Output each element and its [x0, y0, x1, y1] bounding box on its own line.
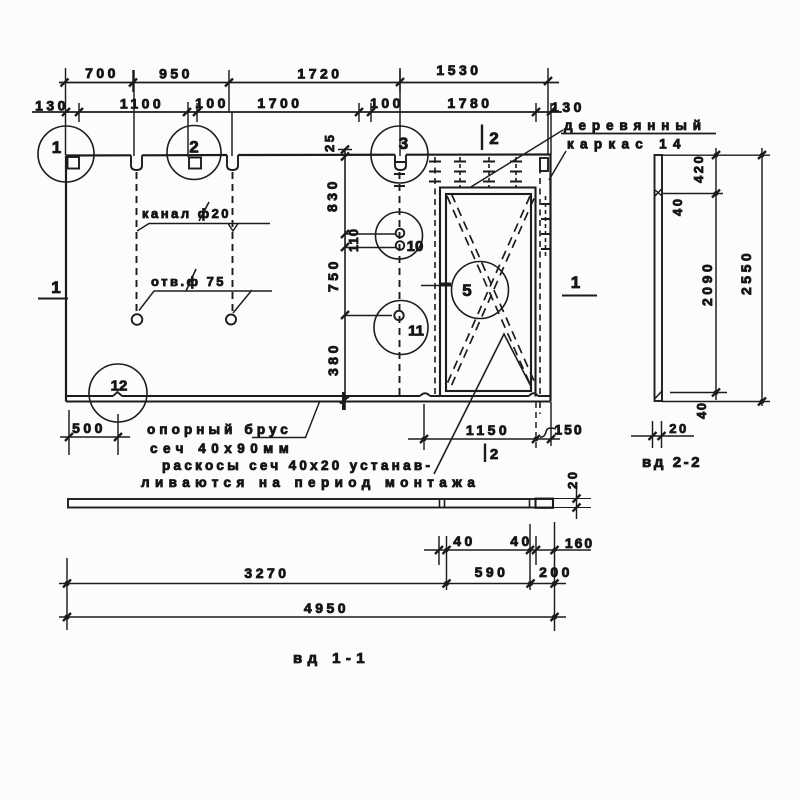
- svg-text:3270: 3270: [244, 565, 289, 581]
- extension line x=187: [187, 102, 189, 157]
- otv leader: [139, 290, 272, 313]
- svg-text:раскосы сеч 40х20 устанав-: раскосы сеч 40х20 устанав-: [162, 458, 433, 473]
- svg-text:2: 2: [490, 446, 498, 463]
- section element 2-2: [655, 148, 771, 406]
- door frame dashed companion right x=540: [539, 157, 541, 414]
- door frame inner: [446, 194, 531, 391]
- svg-text:20: 20: [565, 470, 580, 489]
- side bar (view 1-1): [68, 488, 591, 519]
- circle5 left bold tick: [439, 283, 451, 287]
- row2 tick verticals: [79, 103, 536, 122]
- small hole in c11: [394, 311, 403, 320]
- svg-text:830: 830: [324, 178, 340, 212]
- bottom dims row B: [59, 580, 566, 588]
- crosses on channel x=399.5 top: [394, 162, 405, 186]
- row1 dim labels: [85, 62, 482, 82]
- svg-text:1700: 1700: [257, 95, 302, 111]
- svg-text:1: 1: [52, 138, 61, 157]
- svg-text:40: 40: [670, 197, 685, 216]
- svg-text:130: 130: [551, 99, 585, 115]
- interior dim tick horizontals: [338, 150, 396, 316]
- svg-text:5: 5: [462, 281, 471, 300]
- section mark 2 bottom: [484, 444, 486, 463]
- svg-text:40: 40: [453, 533, 476, 549]
- svg-text:500: 500: [72, 420, 106, 436]
- svg-text:4950: 4950: [304, 600, 349, 616]
- kanal leader: [137, 224, 270, 232]
- channel dashed x=136.5: [136, 172, 138, 313]
- svg-text:каркас 14: каркас 14: [567, 137, 687, 152]
- leader A to hatch: [470, 130, 563, 188]
- callout circle 1: [38, 126, 94, 182]
- extension line x=229-232: [229, 92, 232, 156]
- svg-text:1100: 1100: [120, 96, 164, 112]
- svg-text:100: 100: [370, 95, 404, 111]
- svg-text:вд 2-2: вд 2-2: [642, 454, 702, 471]
- extension line x=65.5: [65, 68, 67, 155]
- svg-text:380: 380: [325, 342, 341, 376]
- square notch under circle2: [189, 158, 201, 169]
- thin bar 2-2: [655, 155, 663, 401]
- leader B to panel edge: [549, 151, 566, 180]
- svg-text:канал ф20: канал ф20: [142, 206, 231, 221]
- bottom connectors: [662, 393, 770, 402]
- dimension line row2: [32, 111, 562, 113]
- right strip dashed x=545.5: [545, 196, 547, 258]
- svg-text:420: 420: [691, 154, 706, 183]
- bar right extensions: [553, 499, 591, 508]
- bar right piece: [536, 499, 554, 508]
- hatch columns top strip: [460, 157, 516, 187]
- row2 ticks: [62, 108, 555, 117]
- callout circle 11: [374, 301, 428, 355]
- extension line x=400: [399, 68, 401, 156]
- otv phi slash: [186, 269, 196, 291]
- svg-text:вд 1-1: вд 1-1: [293, 650, 370, 667]
- svg-text:40: 40: [510, 533, 533, 549]
- svg-text:950: 950: [159, 66, 193, 82]
- panel top edge: [66, 155, 551, 156]
- X brace diagonal TL-BR doubled: [447, 194, 535, 384]
- callout circle 12: [89, 364, 147, 422]
- callout labels: [52, 134, 424, 395]
- hatch crosses top strip: [429, 162, 522, 182]
- svg-text:опорный брус: опорный брус: [147, 422, 292, 437]
- right strip crosses: [541, 204, 551, 249]
- dim 20 below 2-2: [631, 421, 694, 448]
- svg-text:2090: 2090: [699, 261, 715, 306]
- top notch B x=232.5: [227, 155, 238, 170]
- section mark 2 top: [481, 125, 483, 151]
- bottom notch at circle12: [113, 392, 122, 396]
- dim line B x=762: [761, 148, 763, 406]
- svg-text:сеч 40х90мм: сеч 40х90мм: [150, 441, 294, 456]
- row2 dim labels: [35, 95, 585, 115]
- svg-text:1720: 1720: [297, 66, 342, 82]
- svg-text:110: 110: [346, 228, 361, 252]
- svg-text:100: 100: [195, 95, 229, 111]
- bottom dims row A: [424, 522, 591, 631]
- top notch A x=136.5: [131, 155, 142, 170]
- svg-text:1150: 1150: [466, 422, 510, 438]
- svg-text:11: 11: [408, 323, 424, 340]
- svg-text:25: 25: [322, 133, 337, 152]
- interior vertical dim line x=345: [344, 148, 346, 410]
- interior dim ticks: [340, 146, 350, 404]
- panel left edge: [65, 156, 67, 402]
- callout circle 10: [376, 212, 423, 259]
- svg-text:1: 1: [51, 278, 60, 297]
- svg-text:1780: 1780: [447, 95, 492, 111]
- mid connector 420: [662, 193, 723, 195]
- corner square notch left: [68, 157, 80, 169]
- extension line x=134: [133, 70, 135, 156]
- svg-text:2: 2: [189, 138, 198, 157]
- svg-text:2550: 2550: [738, 250, 754, 295]
- squiggle leader 150: [540, 428, 556, 438]
- bottom dims row C 4950: [59, 558, 566, 630]
- small hole bottom in c10: [396, 241, 405, 250]
- underline derevyanny: [561, 133, 716, 135]
- svg-text:200: 200: [539, 564, 573, 580]
- bar 2-2 bottom joint mark: [655, 391, 662, 399]
- bar dividers: [440, 499, 530, 508]
- bottom notch x=533.5: [529, 393, 538, 396]
- svg-text:12: 12: [111, 378, 128, 395]
- row1 ticks: [61, 77, 553, 87]
- dim 500: [60, 410, 130, 455]
- svg-text:20: 20: [669, 421, 688, 436]
- svg-text:3: 3: [399, 134, 408, 153]
- callout circle 3: [371, 126, 428, 183]
- channel dashed x=232.5: [232, 172, 234, 313]
- corner square right: [540, 158, 548, 171]
- dim line A x=716: [715, 148, 717, 400]
- top notch C x=400.5: [395, 155, 406, 170]
- svg-text:590: 590: [475, 564, 509, 580]
- hole circle ch1: [132, 314, 143, 325]
- svg-text:700: 700: [85, 65, 119, 81]
- leader from text to brace: [434, 334, 531, 474]
- callout circle 5: [452, 262, 509, 319]
- dimension line row1 top: [59, 82, 559, 84]
- rotated dim labels left column: [322, 133, 361, 376]
- svg-text:130: 130: [35, 98, 69, 114]
- svg-text:1530: 1530: [436, 62, 481, 78]
- dim 1150 extensions: [423, 404, 425, 450]
- svg-text:1: 1: [571, 273, 580, 292]
- top connector: [662, 154, 770, 156]
- svg-text:750: 750: [325, 258, 341, 292]
- bold tick at bottom x=345: [342, 392, 345, 410]
- channel dashed x=399.5: [399, 172, 401, 396]
- X brace diagonal TR-BL doubled: [447, 196, 534, 387]
- svg-text:ливаются на период монтажа: ливаются на период монтажа: [141, 475, 480, 490]
- svg-text:10: 10: [407, 238, 424, 255]
- svg-text:2: 2: [489, 129, 498, 148]
- bar 2-2 top joint mark: [655, 189, 662, 197]
- svg-text:40: 40: [694, 402, 709, 419]
- svg-text:160: 160: [565, 535, 594, 551]
- callout circle 2: [167, 126, 221, 180]
- leader oporny brus: [252, 401, 320, 438]
- kanal phi slash: [199, 202, 209, 221]
- panel right edge: [549, 155, 551, 402]
- panel bottom edge double: [66, 395, 551, 397]
- bottom notch x=425: [420, 393, 430, 396]
- door frame outer: [440, 188, 536, 397]
- row1 tick verticals: [133, 70, 400, 92]
- dim line A ticks: [712, 151, 720, 397]
- hole circle ch2: [226, 315, 236, 325]
- extension line x=548: [548, 68, 551, 155]
- dim 1150 line: [408, 438, 560, 440]
- small hole top in c10: [396, 229, 405, 238]
- dim 20 vertical right: [576, 488, 578, 519]
- door frame dashed companion left x=435: [434, 157, 436, 396]
- svg-text:150: 150: [554, 422, 583, 438]
- svg-text:деревянный: деревянный: [564, 118, 707, 133]
- dim 1150 ticks: [420, 435, 555, 443]
- circle5 left tick line: [421, 285, 452, 287]
- rotated labels 2-2: [670, 154, 754, 419]
